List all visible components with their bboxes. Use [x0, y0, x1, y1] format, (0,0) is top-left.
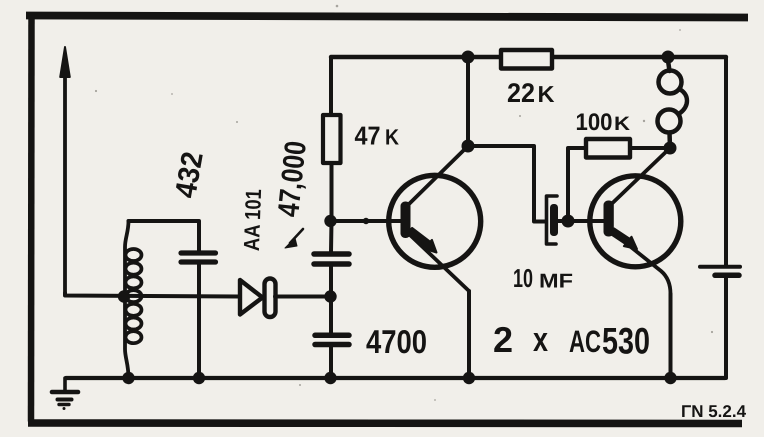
svg-text:x: x	[533, 321, 548, 359]
ground	[52, 378, 78, 410]
junction: 4700 ground node	[324, 372, 336, 384]
svg-text:4700: 4700	[366, 323, 427, 360]
diode AA101	[240, 279, 276, 318]
transistor Q2	[590, 148, 681, 294]
junction: Q2 emitter ground node	[664, 372, 676, 384]
junction: diode node	[324, 290, 336, 302]
wire: base node to Q1 base	[330, 219, 402, 223]
junction: Q1 base node	[324, 215, 336, 227]
resistor 22K	[501, 50, 552, 69]
svg-text:AC: AC	[569, 324, 601, 359]
junction: Q2 base node	[562, 215, 575, 228]
wire: Q1 emitter to ground rail	[467, 291, 471, 378]
leader arrow for 47,000 label	[285, 229, 303, 248]
junction: Q1 emitter ground node	[463, 372, 475, 384]
capacitor 10MF (electrolytic)	[547, 196, 559, 244]
junction: coil tap / antenna node	[118, 290, 130, 302]
battery	[700, 267, 740, 378]
Q1 emitter lead	[409, 234, 469, 291]
wire: 10MF to Q2 base	[558, 219, 605, 223]
svg-text:K: K	[385, 125, 399, 150]
svg-text:AA 101: AA 101	[239, 189, 266, 252]
junction: earphone bottom node	[664, 142, 677, 155]
wire: 47,000 to diode node	[329, 264, 333, 335]
label 2 x AC530	[493, 319, 650, 362]
svg-text:MF: MF	[539, 271, 573, 293]
inductor L (432)	[125, 221, 142, 378]
Q1 collector lead	[409, 146, 469, 205]
wire: top rail corner down to 47K	[329, 57, 333, 115]
wire: Q1 collector to 10MF	[468, 146, 546, 222]
svg-text:530: 530	[602, 321, 650, 362]
wire: Q2 base node up to 100K	[568, 148, 586, 221]
transistor Q1	[389, 146, 481, 291]
wire: tank top (coil top to capacitor)	[129, 221, 200, 251]
earphone	[658, 57, 688, 148]
junction: earphone rail node	[662, 51, 675, 64]
svg-text:10: 10	[513, 263, 533, 293]
capacitor 47,000	[314, 254, 349, 264]
wire: 100K to earphone node	[630, 146, 670, 150]
svg-text:2: 2	[493, 319, 513, 360]
svg-text:100: 100	[576, 109, 613, 136]
wire: bottom ground rail	[66, 376, 725, 380]
wire: top supply rail	[331, 55, 726, 59]
svg-text:ΓN 5.2.4: ΓN 5.2.4	[681, 402, 747, 421]
junction: tank cap bottom	[193, 372, 205, 384]
capacitor C tank	[181, 253, 216, 262]
wire: Q1 collector node vertical	[466, 57, 470, 146]
Q2 emitter lead	[612, 232, 671, 294]
antenna	[60, 47, 70, 293]
svg-text:K: K	[538, 81, 555, 107]
resistor 47K	[323, 115, 341, 163]
svg-text:K: K	[614, 113, 630, 135]
junction: coil bottom	[122, 372, 134, 384]
wire: 47K bottom to base node	[329, 163, 334, 252]
resistor 100K	[586, 139, 630, 158]
svg-text:47: 47	[355, 121, 381, 151]
wire: tank cap bottom lead	[197, 263, 201, 378]
wire: antenna to diode anode	[65, 293, 239, 297]
wire: right rail (battery branch)	[724, 57, 728, 265]
Q2 collector lead	[612, 148, 670, 204]
capacitor 4700	[315, 335, 349, 344]
svg-text:22: 22	[507, 78, 535, 108]
wire: diode cathode to node	[275, 295, 330, 299]
wire: Q2 emitter to ground rail	[669, 294, 673, 378]
junction: Q1 collector node	[462, 140, 475, 153]
wire: 4700 to ground rail	[329, 344, 333, 378]
junction: 47K/22K rail node	[462, 51, 475, 64]
